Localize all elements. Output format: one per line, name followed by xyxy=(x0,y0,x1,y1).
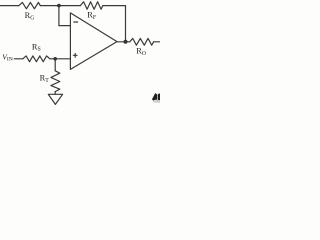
wire RT to ground xyxy=(54,92,56,95)
resistor RO xyxy=(126,38,154,45)
wire RF to top-right corner and down to node B xyxy=(103,6,126,42)
ground xyxy=(48,94,62,104)
svg-text:RG: RG xyxy=(25,11,35,21)
svg-text:RT: RT xyxy=(40,74,50,84)
op-amp plus sign xyxy=(73,54,77,56)
wire node A down to inverting input xyxy=(59,6,71,26)
wire VIN to RS xyxy=(14,58,23,60)
wire op-amp output to node B xyxy=(117,41,126,43)
wire top-left input xyxy=(0,5,19,7)
wire RO to right edge xyxy=(154,41,160,43)
wire node C down to RT xyxy=(54,59,56,71)
svg-text:IN: IN xyxy=(7,56,13,62)
svg-text:RS: RS xyxy=(32,42,41,52)
node C junction dot xyxy=(53,57,57,61)
resistor RS xyxy=(23,56,50,62)
svg-text:RO: RO xyxy=(136,47,146,57)
svg-text:RF: RF xyxy=(87,11,97,21)
node A junction dot xyxy=(57,4,61,8)
resistor RT xyxy=(51,71,60,92)
resistor RF xyxy=(80,2,103,9)
cropped corner artwork bottom-right xyxy=(152,93,160,103)
op-amp U1 xyxy=(70,13,117,70)
op-amp minus sign xyxy=(74,21,78,23)
wire node A to RF xyxy=(59,5,80,7)
wire RS to node C and to non-inverting input xyxy=(50,58,71,60)
wire RG to node A xyxy=(40,5,59,7)
node B junction dot xyxy=(124,40,128,44)
resistor RG xyxy=(19,2,40,8)
